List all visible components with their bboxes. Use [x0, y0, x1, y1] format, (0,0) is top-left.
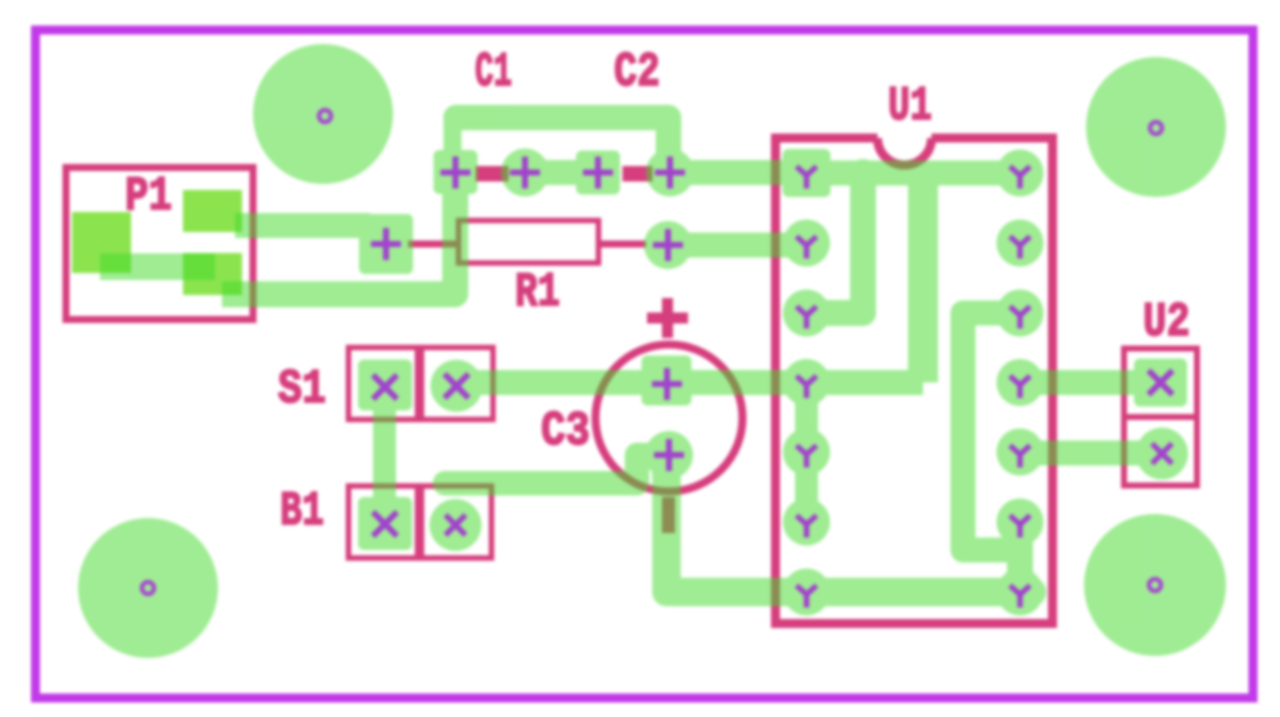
- svg-text:P1: P1: [125, 170, 172, 224]
- svg-text:C2: C2: [614, 46, 660, 100]
- svg-text:C3: C3: [541, 405, 590, 459]
- svg-text:U2: U2: [1143, 296, 1190, 350]
- svg-text:R1: R1: [515, 266, 560, 320]
- svg-text:B1: B1: [280, 485, 324, 539]
- svg-text:U1: U1: [888, 80, 932, 134]
- svg-text:S1: S1: [278, 363, 326, 417]
- svg-text:C1: C1: [475, 46, 512, 100]
